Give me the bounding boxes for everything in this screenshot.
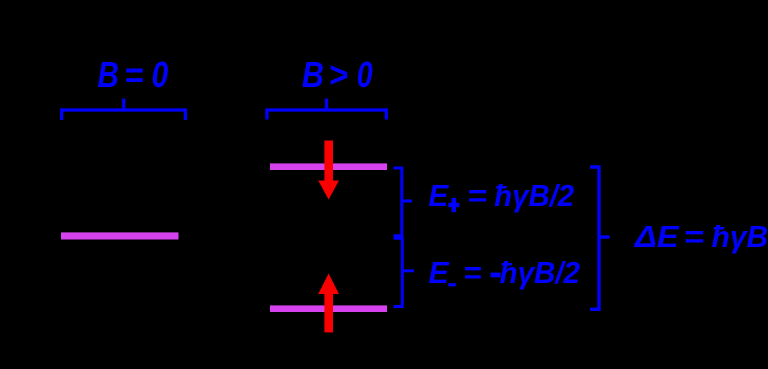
svg-text:ħγB/2: ħγB/2 [494,179,574,213]
svg-text:E: E [429,255,451,289]
subscript plus drawn as rects [452,198,457,212]
svg-text:B: B [97,55,118,96]
small bracket for E+ [394,168,413,236]
red down arrow [318,141,339,200]
label B = 0 [97,55,168,96]
energy level line E- (lower right) [270,305,387,312]
red up arrow [318,274,339,333]
energy level line E+ (upper right) [270,163,387,170]
brace under B > 0 [267,99,387,120]
svg-text:>: > [329,55,348,95]
label B > 0 [302,54,373,96]
svg-text:=: = [467,178,487,213]
label Delta E = hbar gamma B [634,219,768,255]
svg-text:=: = [463,255,481,290]
subscript minus drawn as rect [448,283,456,286]
energy level line B=0 (left) [61,232,179,239]
svg-text:ħγB: ħγB [712,220,768,255]
label E+ = hbar gamma B / 2 [428,178,574,214]
big bracket for Delta E [590,167,610,309]
bold minus before hbar [491,273,501,278]
svg-text:-ħγB/2: -ħγB/2 [490,256,580,290]
small bracket for E- [394,238,415,306]
svg-text:ΔE: ΔE [634,219,679,254]
svg-text:=: = [124,55,143,95]
svg-text:B: B [302,55,324,95]
svg-text:E: E [428,179,449,213]
svg-text:=: = [683,220,703,255]
svg-text:0: 0 [152,55,169,96]
brace under B = 0 [62,99,186,121]
svg-text:0: 0 [357,54,373,95]
label E- = -hbar gamma B / 2 [429,255,581,290]
